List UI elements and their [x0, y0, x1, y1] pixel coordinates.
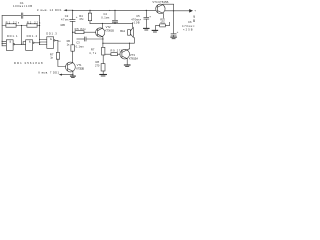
capacitor C1 label	[13, 1, 32, 8]
svg-text:&: &	[29, 40, 31, 44]
svg-text:47к: 47к	[79, 17, 84, 21]
wire R9 to VT3 base	[118, 53, 121, 55]
resistor R10	[160, 24, 166, 27]
wire output line	[165, 10, 189, 12]
resistor R4	[88, 13, 91, 21]
transistor VT3 label	[129, 53, 138, 60]
resistor R7	[56, 52, 59, 59]
svg-text:16В: 16В	[60, 23, 65, 27]
wire DD1.2 output	[34, 42, 39, 44]
transistor VT2 label	[105, 25, 114, 32]
resistor R4 label	[79, 14, 84, 21]
svg-text:×10В: ×10В	[132, 21, 140, 25]
ground G1	[100, 74, 107, 76]
wire VT3 collector	[127, 43, 130, 50]
svg-text:В: В	[193, 19, 195, 23]
svg-text:DD1 К561ЛА8: DD1 К561ЛА8	[14, 61, 43, 65]
wire VT2 emitter	[102, 37, 104, 48]
svg-text:10: 10	[58, 41, 61, 43]
node gate1 output junction	[21, 44, 22, 45]
wire R5 to VT2 base	[84, 31, 96, 33]
wire VT2 collector	[101, 23, 103, 28]
resistor R7b	[102, 47, 105, 55]
resistor R2	[27, 24, 37, 27]
wire VT4 collector	[163, 4, 174, 11]
capacitor C4 plates	[112, 19, 117, 21]
wire C5 top lead	[145, 10, 147, 17]
svg-text:C2: C2	[65, 14, 69, 18]
svg-text:КТ361Б: КТ361Б	[105, 28, 114, 32]
svg-text:VT3: VT3	[130, 53, 135, 57]
ground G5	[152, 29, 157, 31]
gate DD1.2	[26, 40, 33, 51]
ground VT1 emitter	[71, 75, 76, 77]
wire C1 right lead	[24, 15, 40, 17]
gate DD1.3 output bubble	[54, 40, 55, 41]
capacitor C2 label	[60, 14, 71, 27]
svg-text:DD1.1: DD1.1	[7, 34, 18, 38]
wire R1R2 to gate output	[21, 26, 23, 45]
wire R9 lead	[105, 53, 111, 55]
node wire43 tap	[102, 43, 103, 44]
capacitor C1 plates	[21, 13, 23, 18]
wire DD1.2 upper input	[23, 42, 26, 45]
label DD1 type	[14, 61, 43, 65]
wire C2 top lead	[72, 10, 74, 19]
svg-text:+: +	[76, 15, 78, 19]
node DD1.1 input ties	[2, 41, 3, 42]
node C3 tap	[102, 38, 103, 39]
transistor VT1	[66, 62, 76, 72]
node VT1 emitter junction	[72, 74, 73, 75]
resistor R7 label	[50, 52, 54, 59]
speaker BA1	[128, 30, 131, 36]
pin number 10	[58, 41, 61, 43]
label supply voltage	[193, 15, 195, 23]
svg-text:R7: R7	[91, 48, 95, 52]
node R4 rail junction	[89, 10, 90, 11]
svg-text:&: &	[9, 40, 11, 44]
resistor R7b label	[89, 48, 97, 56]
node rail top junction	[72, 10, 73, 11]
wire R1 leads	[2, 25, 21, 27]
wire R8 bottom	[102, 71, 104, 74]
svg-text:+: +	[149, 14, 151, 18]
node DD1.2 input tie	[23, 44, 24, 45]
wire C4 bottom lead	[114, 22, 116, 23]
wire R4 bottom lead	[89, 21, 91, 24]
svg-text:C5: C5	[136, 14, 140, 18]
capacitor C5 label	[131, 14, 141, 25]
wire speaker top riser	[132, 23, 134, 27]
resistor R9 label	[111, 49, 124, 53]
ground G4	[171, 36, 176, 38]
node output-C6 junction	[173, 10, 174, 11]
wire R5 left lead	[73, 31, 75, 33]
svg-text:КТ315Б: КТ315Б	[76, 66, 84, 70]
svg-text:C3: C3	[76, 40, 80, 44]
node R1-R2 junction	[21, 25, 22, 26]
resistor R1	[6, 24, 16, 27]
wire supply rail	[73, 9, 156, 11]
resistor R1 label	[6, 20, 20, 24]
gate DD1.1 ampersand	[9, 40, 11, 44]
resistor R9	[111, 53, 118, 56]
wire speaker bottom riser	[133, 38, 135, 44]
wire C6 top lead	[173, 11, 175, 34]
svg-text:C6: C6	[188, 20, 192, 24]
capacitor C4 label	[101, 12, 110, 19]
label supply plus	[194, 8, 196, 12]
ground G2	[144, 27, 149, 29]
capacitor C6 label	[182, 20, 195, 32]
wire R4 top lead	[89, 10, 91, 13]
node VT3 collector tap	[129, 43, 130, 44]
node DD1.3 input ties	[39, 39, 40, 40]
wire C6 bottom lead	[173, 35, 175, 37]
resistor R6 label	[67, 39, 71, 46]
label to pin 14 DD1	[37, 8, 62, 12]
gate DD1.2 label	[27, 34, 38, 38]
capacitor C5 polarity plus	[149, 14, 151, 18]
wire DD1.1 input pins	[2, 41, 6, 46]
wire C1 left lead	[2, 15, 21, 17]
svg-text:47мк×: 47мк×	[61, 18, 71, 22]
wire C4 top lead	[114, 10, 116, 20]
wire left input riser	[1, 16, 3, 46]
svg-text:0,1мк: 0,1мк	[76, 45, 85, 49]
wire C3 right lead	[86, 38, 103, 40]
wire R10 left lead	[156, 25, 160, 30]
transistor VT3	[120, 49, 130, 59]
svg-text:×25В: ×25В	[183, 28, 193, 32]
wire R6 to VT1 collector	[72, 51, 74, 62]
capacitor C2 polarity plus	[76, 15, 78, 19]
label to pin 7 DD1	[39, 71, 60, 75]
wire R10 right stub	[165, 22, 169, 25]
svg-text:КТ815А: КТ815А	[129, 57, 138, 61]
svg-text:DD1.2: DD1.2	[27, 34, 38, 38]
svg-text:470мк×: 470мк×	[182, 24, 195, 28]
svg-text:DD1.3: DD1.3	[46, 32, 57, 36]
wire VT3 emitter	[126, 59, 128, 65]
resistor R8 label	[95, 60, 100, 67]
wire C5 bottom lead	[145, 19, 147, 28]
svg-text:+: +	[194, 8, 196, 12]
resistor R8	[101, 64, 105, 71]
gate DD1.1	[6, 40, 13, 51]
svg-text:К выв. 7 DD1: К выв. 7 DD1	[39, 71, 60, 75]
transistor VT2	[96, 28, 105, 37]
resistor R5 label	[75, 27, 87, 31]
node collector-R4	[102, 23, 103, 24]
wire DD1.3 input pins	[40, 40, 47, 45]
resistor R5	[75, 31, 84, 34]
gate DD1.3 ampersand	[50, 37, 52, 41]
arrow to pin 14 DD1	[63, 9, 67, 11]
wire C3 left lead	[77, 38, 85, 40]
ground G3	[124, 64, 130, 66]
svg-text:VT4 КТ815Б: VT4 КТ815Б	[152, 0, 168, 4]
svg-text:R5 82к: R5 82к	[75, 27, 87, 31]
gate DD1.3 label	[46, 32, 57, 36]
node rail dot2	[109, 10, 110, 11]
capacitor C6 plates	[171, 34, 176, 36]
resistor R6	[71, 45, 74, 51]
node C4 rail junction	[114, 10, 115, 11]
svg-text:1к: 1к	[67, 42, 70, 46]
wire R2 leads	[22, 25, 40, 27]
gate DD1.2 output bubble	[33, 42, 34, 43]
arrow to pin 7 DD1	[59, 74, 62, 76]
wire R7 to VT1 base	[58, 59, 66, 66]
wire y43 net	[103, 42, 134, 44]
node C5 rail junction	[146, 10, 147, 11]
wire collector net	[90, 22, 133, 24]
wire VT4 emitter	[162, 13, 164, 18]
svg-text:0,1мк: 0,1мк	[101, 15, 110, 19]
node DD1.2 output junction	[39, 42, 40, 43]
arrow supply output	[189, 9, 193, 13]
capacitor C2 plates	[70, 20, 75, 22]
svg-text:270: 270	[95, 63, 100, 67]
transistor VT1 label	[76, 63, 84, 70]
node R5 tap	[72, 32, 73, 33]
node R2 right junction	[39, 25, 40, 26]
transistor VT4	[156, 4, 165, 13]
gate DD1.1 label	[7, 34, 18, 38]
svg-text:100мк×10В: 100мк×10В	[13, 4, 32, 8]
resistor R10 label	[160, 18, 165, 25]
speaker BA1 label	[120, 29, 125, 33]
capacitor C6 polarity plus	[177, 30, 179, 34]
gate DD1.1 output bubble	[13, 44, 14, 45]
wire VT1 emitter	[62, 71, 73, 76]
capacitor C5 plates	[144, 17, 149, 19]
wire DD1.3 output to R7	[55, 40, 58, 52]
gate DD1.2 ampersand	[29, 40, 31, 44]
svg-text:+: +	[177, 30, 179, 34]
wire C2 to R6	[72, 21, 74, 45]
svg-text:ВА1: ВА1	[120, 29, 125, 33]
wire right riser	[39, 16, 41, 45]
svg-text:К выв. 14 DD1: К выв. 14 DD1	[37, 8, 62, 12]
wire R7b to R8	[102, 55, 104, 64]
svg-text:4,7к: 4,7к	[89, 51, 97, 55]
capacitor C3 plates	[85, 37, 87, 41]
svg-text:R6: R6	[67, 39, 71, 43]
gate DD1.3	[47, 37, 54, 49]
svg-text:&: &	[50, 37, 52, 41]
wire DD1.1 output	[15, 43, 26, 45]
node C4 bottom junction	[114, 23, 115, 24]
resistor R2 label	[27, 20, 41, 24]
wire supply rail left arrow	[67, 9, 73, 11]
transistor VT4 label	[152, 0, 168, 4]
capacitor C3 label	[76, 40, 85, 48]
